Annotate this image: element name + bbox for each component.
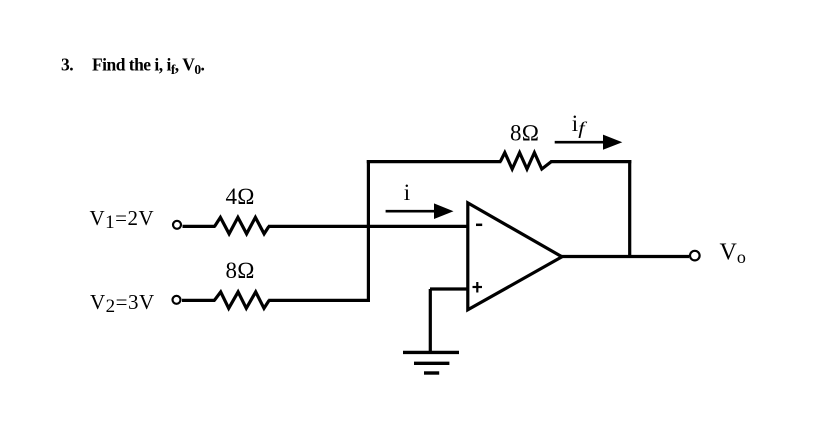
current arrow i	[386, 203, 454, 219]
resistor R1 4ohm zigzag	[215, 217, 269, 233]
current arrow if	[555, 135, 623, 150]
svg-text:Find the i, if, V0.: Find the i, if, V0.	[92, 55, 205, 78]
feedback right vertical wire down to output	[628, 160, 631, 257]
top feedback wire left segment	[367, 160, 502, 163]
resistor R2 8ohm zigzag	[214, 292, 269, 308]
wire down to ground	[429, 289, 432, 352]
svg-text:8Ω: 8Ω	[510, 121, 539, 146]
wire V1 terminal to resistor R1	[183, 225, 216, 228]
terminal circle Vo output	[690, 251, 700, 261]
feedback resistor Rf 8ohm zigzag	[500, 153, 551, 169]
wire V2 terminal to resistor R2	[182, 299, 215, 302]
terminal circle V1 input	[173, 221, 181, 229]
output wire	[560, 255, 689, 258]
top feedback wire right segment	[550, 160, 631, 163]
wire R1 to op-amp inverting input	[268, 225, 468, 228]
op-amp plus sign	[473, 282, 483, 293]
svg-text:3.: 3.	[61, 55, 73, 75]
svg-text:8Ω: 8Ω	[226, 258, 255, 283]
svg-text:V1=2V: V1=2V	[90, 206, 155, 233]
ground symbol	[403, 352, 459, 373]
wire op-amp noninverting input	[430, 287, 468, 290]
svg-text:4Ω: 4Ω	[226, 184, 255, 209]
svg-text:i: i	[404, 180, 410, 205]
op-amp minus sign	[476, 224, 482, 227]
vertical riser wire x=368	[367, 160, 370, 300]
wire R2 to riser corner	[268, 299, 370, 302]
op-amp U1 triangle	[468, 203, 562, 310]
svg-text:V2=3V: V2=3V	[90, 290, 155, 317]
title: 3. Find the i, if, V0.	[61, 55, 205, 78]
terminal circle V2 input	[173, 296, 181, 304]
